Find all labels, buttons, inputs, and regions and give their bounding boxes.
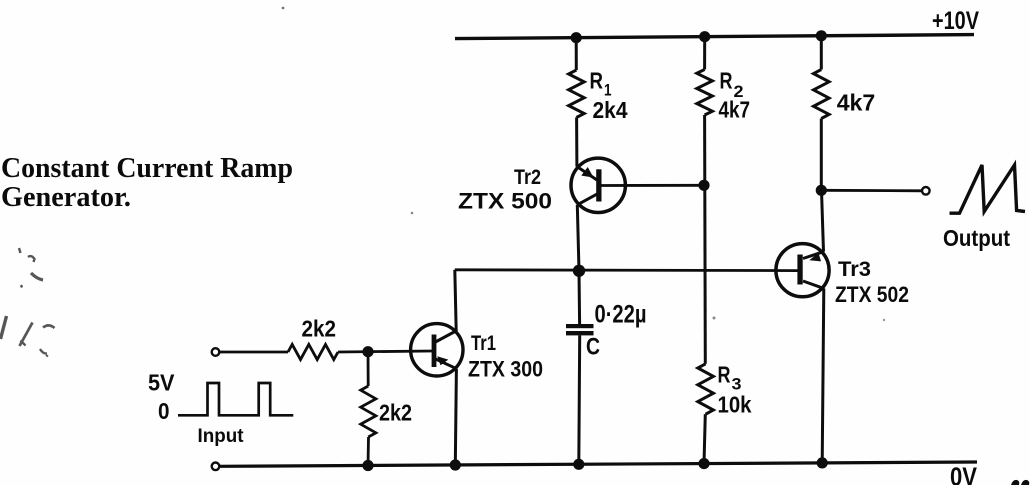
svg-text:Tr2: Tr2 [514,166,541,189]
junction 4k7/+10V [816,30,827,41]
Tr3 collector diagonal [803,281,824,288]
pencil smudge marks [1,248,55,357]
output terminal [922,187,930,195]
Tr2 collector diagonal [577,194,597,205]
wire +10V to R2 [703,37,706,70]
wire Tr2 collector down to node [577,205,579,271]
wire input to 2k2 [220,351,289,354]
input pulse waveform [178,383,293,415]
resistor R3 [698,364,714,414]
resistor R2 [697,70,713,116]
junction Tr2 base / R2 [698,180,709,191]
wire R2 to R3 [703,115,707,364]
svg-text:Tr3: Tr3 [838,258,871,281]
svg-text:R: R [590,68,604,94]
Tr1 base bar [432,335,437,368]
svg-text:0: 0 [158,398,170,424]
wire output node down to Tr3 emitter [822,190,824,251]
Tr1 emitter diagonal [435,359,457,369]
capacitor C bottom plate [566,331,594,335]
wire junction down [367,352,370,386]
junction 2k2/0V [362,460,373,471]
svg-text:0·22µ: 0·22µ [595,300,647,328]
input terminal [212,348,220,356]
wire 2k2 shunt to 0V [367,437,370,466]
wire Tr1 collector up [455,270,456,331]
svg-text:ZTX 502: ZTX 502 [835,282,909,307]
svg-text:0V: 0V [950,462,978,485]
svg-text:2k4: 2k4 [593,97,628,123]
svg-text:2k2: 2k2 [379,399,412,425]
svg-text:10k: 10k [718,391,752,417]
wire output node to terminal [821,189,921,192]
output ramp waveform [950,165,1026,213]
wire +10V to 4k7 [820,36,823,70]
resistor 4k7 [814,70,830,119]
wire C to 0V [577,335,581,464]
junction output node [816,185,827,196]
junction C/0V [573,459,584,470]
svg-text:4k7: 4k7 [719,97,751,123]
wire Tr1 emitter down [455,369,456,465]
svg-text:Output: Output [943,225,1010,251]
svg-text:R: R [718,362,731,388]
node junction input/2k2 [362,346,373,357]
Tr1 collector diagonal [435,331,457,343]
resistor 2k2 (shunt) [361,386,376,437]
node junction C top [573,265,585,277]
capacitor C top plate [566,324,594,328]
junction Tr3 collector/0V [817,457,828,468]
wire +10V to R1 [575,38,578,70]
Tr2 base bar [596,169,601,201]
junction R3/0V [698,458,709,469]
svg-text:Constant Current Ramp: Constant Current Ramp [1,152,293,184]
svg-text:ZTX 500: ZTX 500 [458,189,552,214]
speck marks [282,7,285,10]
wire R3 to 0V [704,414,705,463]
wire R1 to Tr2 emitter [575,118,578,167]
svg-text:Input: Input [198,426,245,447]
wire 4k7 to output node [820,119,823,191]
wire node to C [578,271,582,324]
wire node row [455,268,798,272]
wire +10V top rail [455,35,974,39]
Tr1 emitter arrow [437,356,448,365]
Tr3 emitter diagonal [803,252,824,259]
junction R1/+10V [571,32,582,43]
wire Tr2 base to R2 [602,184,705,187]
Tr3 base bar [797,255,802,285]
svg-text:Tr1: Tr1 [471,332,496,355]
svg-text:5V: 5V [148,370,175,396]
Tr2 emitter arrow (PNP) [581,167,593,178]
resistor R1 [569,70,585,118]
wire 2k2 to Tr1 base [338,351,432,352]
transistor Tr1 circle [411,324,463,376]
svg-text:ZTX 300: ZTX 300 [468,357,543,382]
svg-text:R: R [720,68,733,94]
svg-text:2k2: 2k2 [302,315,337,341]
input ground terminal [212,463,220,471]
Tr2 emitter diagonal [577,167,597,181]
junction Tr1 emitter/0V [450,459,461,470]
wire 0V bottom rail [219,462,977,466]
svg-text:Generator.: Generator. [1,181,131,213]
svg-text:C: C [586,334,600,361]
wire Tr3 collector to 0V [822,288,824,463]
transistor Tr2 circle [571,158,625,212]
svg-text:4k7: 4k7 [837,90,876,116]
junction R2/+10V [699,31,710,42]
svg-text:+10V: +10V [932,7,979,35]
transistor Tr3 circle [776,244,829,297]
page number fragment bottom right [1011,480,1019,485]
Tr3 emitter arrow (PNP) [809,253,821,262]
resistor 2k2 (series) [288,344,338,359]
